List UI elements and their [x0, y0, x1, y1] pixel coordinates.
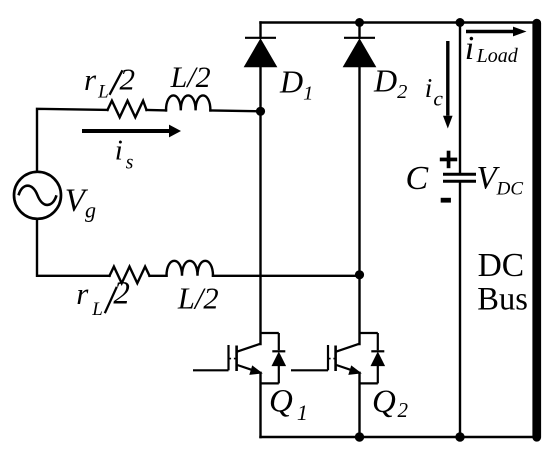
svg-text:is: is	[115, 135, 134, 174]
source Vg	[14, 172, 61, 219]
transistor Q1 (IGBT with antiparallel diode)	[193, 333, 285, 383]
DC bus bar	[532, 19, 541, 442]
resistor rL/2 top	[108, 101, 147, 118]
svg-text:rL: rL	[84, 62, 109, 103]
svg-text:C: C	[406, 160, 429, 197]
svg-text:L/2: L/2	[170, 61, 211, 94]
resistor rL/2 bottom	[110, 267, 150, 284]
svg-text:D1: D1	[279, 63, 313, 104]
wire capacitor leg	[459, 23, 461, 438]
wire top bus horizontal	[261, 21, 537, 23]
svg-text:DC: DC	[478, 247, 525, 284]
arrow ic	[443, 41, 453, 129]
svg-text:VDC: VDC	[477, 161, 524, 200]
wire resistor to inductor top	[147, 109, 167, 112]
node dot bottom Q2	[355, 432, 364, 441]
wire bottom bus horizontal	[261, 436, 537, 438]
diode D2	[344, 38, 376, 67]
svg-text:Vg: Vg	[65, 183, 96, 223]
svg-text:Bus: Bus	[477, 282, 528, 318]
capacitor C	[443, 174, 476, 181]
node dot top D2	[355, 18, 364, 27]
wire inductor to node A top	[210, 109, 260, 112]
wire inductor to node B bottom	[213, 275, 360, 277]
svg-text:iLoad: iLoad	[465, 30, 519, 67]
inductor L/2 bottom	[167, 261, 214, 276]
svg-text:Q2: Q2	[372, 384, 409, 422]
node dot phase A	[256, 107, 265, 116]
node dot bottom capacitor	[455, 432, 464, 441]
node dot top capacitor	[456, 18, 465, 27]
wire diode D2 leg	[358, 23, 360, 345]
arrow is	[82, 125, 181, 138]
svg-text:L/2: L/2	[177, 282, 219, 316]
minus sign	[441, 198, 451, 203]
svg-text:2: 2	[120, 62, 136, 97]
svg-text:Q1: Q1	[269, 383, 308, 425]
diode D1	[245, 38, 277, 67]
wire source to bottom branch	[37, 219, 110, 276]
wire Q1 emitter to bottom	[259, 373, 261, 437]
wire source to top branch	[37, 109, 108, 172]
svg-text:rL: rL	[76, 276, 103, 320]
wire resistor to inductor bottom	[150, 275, 167, 277]
transistor Q2 (IGBT with antiparallel diode)	[291, 333, 384, 383]
wire Q2 emitter to bottom	[358, 373, 360, 437]
inductor L/2 top	[166, 95, 210, 110]
svg-text:2: 2	[113, 276, 129, 312]
svg-text:D2: D2	[373, 63, 407, 103]
wire diode D1 leg	[259, 23, 261, 345]
svg-text:ic: ic	[425, 73, 444, 111]
plus sign	[440, 151, 457, 169]
arrow iLoad	[466, 27, 527, 37]
node dot phase B	[355, 270, 364, 279]
